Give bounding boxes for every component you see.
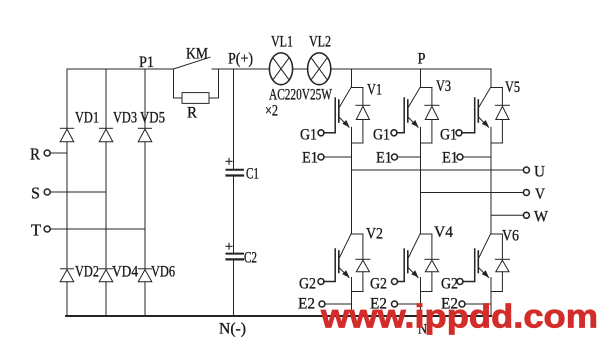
svg-text:E1: E1 [302,150,318,167]
svg-text:S: S [31,184,40,203]
svg-text:V1: V1 [367,82,382,99]
svg-text:V2: V2 [366,226,383,243]
svg-text:P1: P1 [139,54,154,71]
svg-text:VD5: VD5 [140,110,165,127]
svg-text:G2: G2 [441,276,458,293]
svg-text:VD6: VD6 [151,264,175,281]
svg-text:R: R [30,145,41,164]
svg-text:C2: C2 [244,250,257,267]
svg-text:VD1: VD1 [75,110,99,127]
svg-text:VD3: VD3 [113,110,137,127]
svg-text:E2: E2 [298,296,315,313]
svg-text:G1: G1 [373,127,390,144]
svg-text:VD4: VD4 [112,264,138,281]
svg-text:VL1: VL1 [271,34,293,51]
svg-text:U: U [534,164,545,181]
svg-text:G1: G1 [440,127,457,144]
svg-text:E1: E1 [442,150,458,167]
svg-text:C1: C1 [246,166,259,183]
svg-text:VD2: VD2 [75,264,99,281]
svg-text:N(-): N(-) [219,321,246,338]
svg-text:W: W [534,209,549,226]
svg-text:V6: V6 [502,228,519,245]
svg-text:V4: V4 [434,224,453,241]
svg-text:www.ippdd.com: www.ippdd.com [320,298,598,335]
svg-text:G2: G2 [370,276,387,293]
svg-text:T: T [31,221,42,240]
svg-text:AC220V25W: AC220V25W [269,87,333,104]
svg-text:V: V [535,186,545,203]
svg-text:G2: G2 [299,276,316,293]
svg-text:R: R [187,105,197,122]
svg-text:V5: V5 [505,79,520,96]
svg-text:G1: G1 [300,127,317,144]
svg-text:KM: KM [186,46,208,63]
svg-text:P(+): P(+) [228,51,253,68]
svg-text:V3: V3 [436,78,451,95]
svg-text:E1: E1 [376,150,392,167]
svg-text:VL2: VL2 [309,34,331,51]
svg-text:P: P [418,51,426,68]
svg-text:×2: ×2 [265,103,278,120]
